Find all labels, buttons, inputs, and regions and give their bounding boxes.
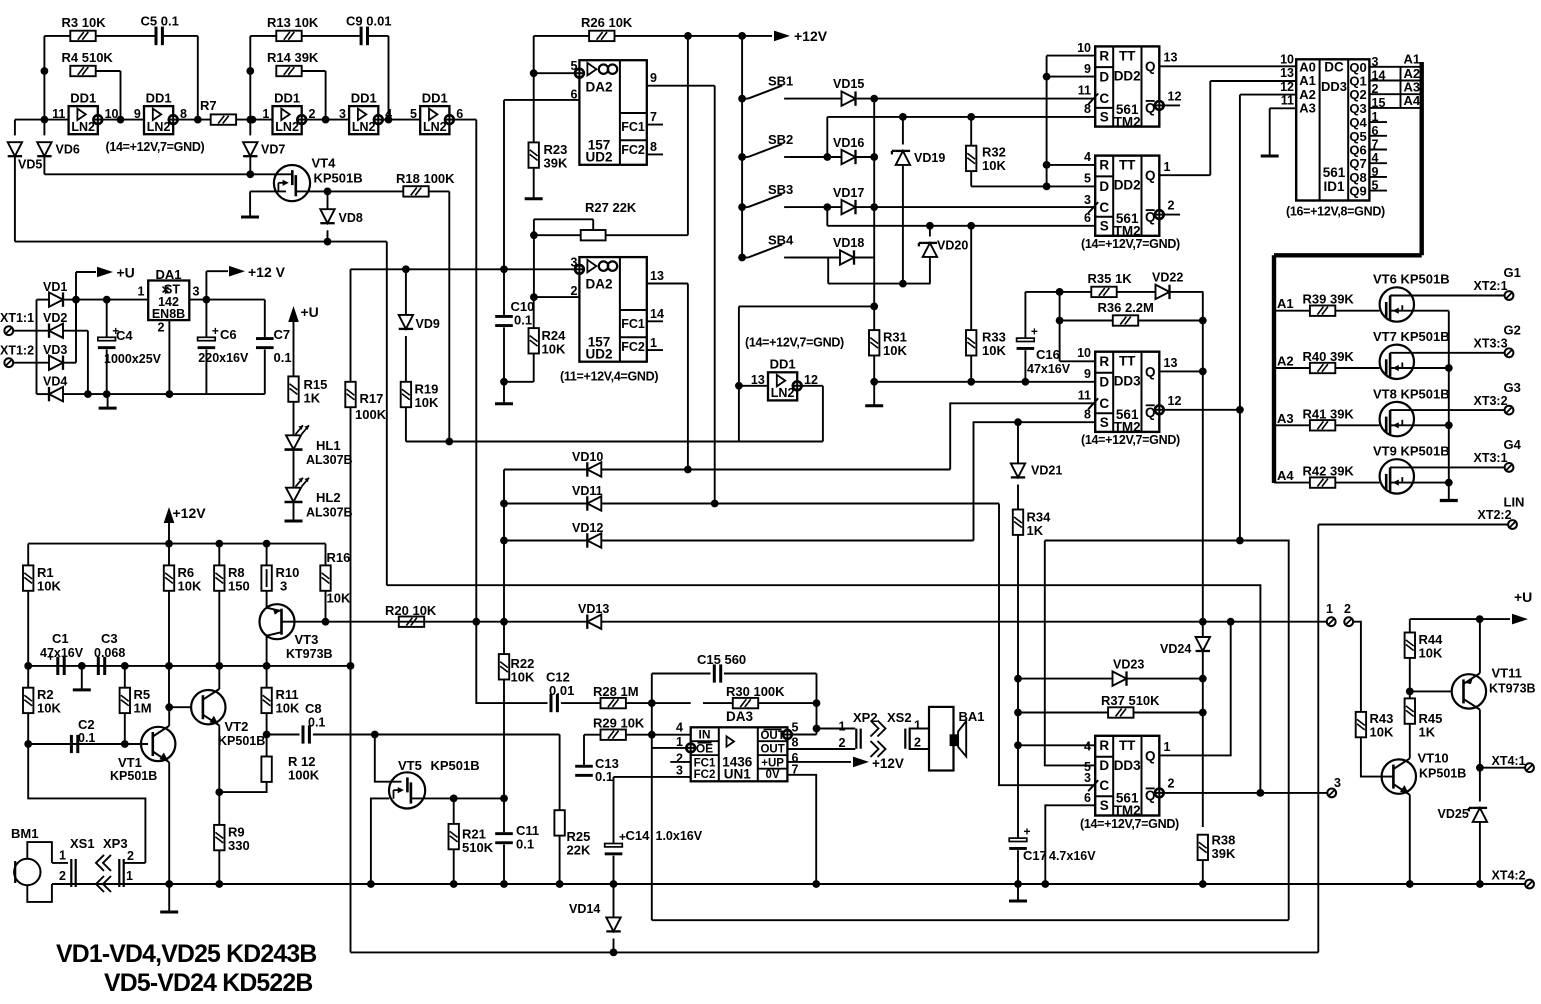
svg-text:A1: A1 <box>1277 296 1294 311</box>
svg-text:10K: 10K <box>37 579 61 594</box>
wire R30 out <box>758 702 816 704</box>
diode VD24 <box>1196 637 1210 651</box>
svg-text:3: 3 <box>280 579 287 594</box>
svg-text:(11=+12V,4=GND): (11=+12V,4=GND) <box>560 370 658 384</box>
wire R36 out <box>1138 320 1203 322</box>
wire VT5 source to ground <box>371 798 389 884</box>
transistor VT6 <box>1380 287 1414 321</box>
wire C15 out <box>724 673 817 675</box>
diode VD11 <box>587 496 601 510</box>
svg-text:C: C <box>1099 396 1109 411</box>
wire top rail to DA1 <box>76 299 148 301</box>
capacitor C6 <box>205 300 207 338</box>
svg-text:Q3: Q3 <box>1349 101 1366 116</box>
capacitor C9 <box>360 27 363 46</box>
svg-text:DD1: DD1 <box>70 90 96 105</box>
svg-text:TM2: TM2 <box>1114 114 1141 129</box>
wire DD2.2 R <box>1047 164 1096 166</box>
svg-text:R29 10K: R29 10K <box>593 716 645 731</box>
wire VT1 emitter <box>168 762 170 884</box>
svg-text:VT10: VT10 <box>1418 751 1449 766</box>
resistor R10 <box>266 544 268 566</box>
svg-text:A3: A3 <box>1299 101 1316 116</box>
wire VT2 emitter <box>218 725 220 792</box>
diode VD5 <box>14 120 16 136</box>
wire R13 left leg <box>250 35 276 37</box>
LED HL1 <box>286 435 301 449</box>
capacitor C17 <box>1009 838 1027 841</box>
svg-text:VD14: VD14 <box>569 902 600 916</box>
wire R19 bottom <box>405 407 407 441</box>
svg-text:VD5: VD5 <box>18 158 42 172</box>
svg-text:D: D <box>1099 758 1109 773</box>
wire to VT5 gate <box>375 735 402 782</box>
svg-text:R27 22K: R27 22K <box>585 200 637 215</box>
+U arrow right <box>1512 614 1528 625</box>
svg-text:VD5-VD24 KD522B: VD5-VD24 KD522B <box>104 970 313 997</box>
svg-text:10K: 10K <box>1419 646 1443 661</box>
svg-text:XT4:1: XT4:1 <box>1492 754 1526 768</box>
wire VT7 drain <box>1414 352 1505 354</box>
svg-text:3: 3 <box>676 764 683 778</box>
svg-text:TT: TT <box>1119 158 1136 173</box>
svg-text:5: 5 <box>792 721 799 735</box>
svg-text:1: 1 <box>1164 160 1171 174</box>
svg-text:LN2: LN2 <box>423 120 447 134</box>
svg-text:VT9 KP501B: VT9 KP501B <box>1373 444 1450 459</box>
resistor R29 <box>601 730 626 740</box>
wire C8 line <box>313 734 560 736</box>
+12V arrow SB <box>774 31 790 42</box>
svg-text:VT11: VT11 <box>1492 666 1522 681</box>
switch SB3 <box>738 203 746 211</box>
wire R17 bottom <box>350 407 352 952</box>
svg-text:IN: IN <box>699 728 711 742</box>
svg-text:0.1: 0.1 <box>514 313 532 328</box>
resistor R35 <box>1091 287 1116 297</box>
svg-text:R37 510K: R37 510K <box>1101 693 1160 708</box>
svg-text:C1: C1 <box>52 631 69 646</box>
svg-text:TT: TT <box>1119 48 1136 63</box>
svg-text:330: 330 <box>228 838 250 853</box>
svg-text:Q: Q <box>1145 405 1156 420</box>
resistor R34 <box>1013 510 1023 535</box>
svg-text:EN8B: EN8B <box>152 307 185 321</box>
wire VT8 drain <box>1414 409 1505 411</box>
transistor VT11 <box>1452 674 1486 708</box>
svg-text:39K: 39K <box>544 156 568 171</box>
wire XS1 row1 <box>52 862 68 864</box>
wire XS2 to BA1 <box>909 728 929 730</box>
diode VD8 <box>327 191 329 209</box>
flip-flop DD3 second <box>1095 736 1159 816</box>
svg-text:150: 150 <box>228 579 250 594</box>
diode VD6 <box>37 142 51 156</box>
svg-text:(14=+12V,7=GND): (14=+12V,7=GND) <box>745 336 844 350</box>
svg-text:VD18: VD18 <box>833 236 864 250</box>
svg-text:R18 100K: R18 100K <box>396 171 455 186</box>
svg-text:XS2: XS2 <box>887 710 912 725</box>
svg-text:47x16V: 47x16V <box>1027 362 1071 376</box>
wire DD3.2 Qb2 out <box>1164 792 1328 794</box>
resistor R19 <box>401 382 411 407</box>
svg-text:Q: Q <box>1145 210 1156 225</box>
wire DA2.1 pin5 <box>534 72 575 74</box>
resistor R2 <box>23 688 33 713</box>
svg-text:DD1: DD1 <box>146 90 172 105</box>
resistor R25 <box>554 810 564 835</box>
svg-text:C15 560: C15 560 <box>697 652 746 667</box>
wire DD3.2 R input <box>1018 744 1095 746</box>
wire R2 to XP3 <box>28 744 145 863</box>
svg-text:+UP: +UP <box>761 757 784 769</box>
+12V arrow DA3 <box>787 761 851 763</box>
svg-text:G4: G4 <box>1504 437 1522 452</box>
svg-text:R4 510K: R4 510K <box>62 50 114 65</box>
svg-text:3: 3 <box>1084 771 1091 785</box>
wire R28 out <box>626 702 691 704</box>
wire R3 left leg <box>44 35 70 37</box>
svg-text:13: 13 <box>1164 51 1178 65</box>
svg-text:12: 12 <box>1280 80 1294 94</box>
svg-text:2: 2 <box>571 284 578 298</box>
svg-text:0.1: 0.1 <box>308 716 325 730</box>
terminal 2 <box>1344 617 1353 626</box>
LED HL2 <box>286 488 301 502</box>
svg-text:S: S <box>1100 415 1109 430</box>
svg-text:G1: G1 <box>1504 265 1521 280</box>
svg-text:3: 3 <box>193 285 200 299</box>
wire OE branch <box>652 747 687 749</box>
svg-text:UD2: UD2 <box>585 150 612 165</box>
svg-text:10K: 10K <box>327 591 351 606</box>
svg-text:DA3: DA3 <box>726 709 753 724</box>
svg-text:UD2: UD2 <box>585 347 612 362</box>
transistor VT2 <box>191 690 225 724</box>
resistor R14 <box>276 66 301 76</box>
resistor R30 <box>733 698 758 708</box>
wire R17 top <box>350 269 352 382</box>
svg-text:S: S <box>1100 219 1109 234</box>
svg-text:3: 3 <box>1334 776 1341 790</box>
svg-text:Q: Q <box>1145 100 1156 115</box>
voltage regulator DA1 <box>148 281 189 321</box>
inverter DD1.1 <box>69 106 98 134</box>
stub DD2.2 Qb <box>1164 214 1180 216</box>
wire VT8 source <box>1414 424 1449 426</box>
svg-text:VD15: VD15 <box>833 77 864 91</box>
capacitor C1 <box>56 657 59 675</box>
svg-text:C7: C7 <box>274 327 291 342</box>
resistor R42 <box>1310 477 1335 487</box>
svg-text:DD1: DD1 <box>274 90 300 105</box>
chevrons XP2-XS2 <box>871 721 879 737</box>
switch SB1 <box>738 95 746 103</box>
svg-text:+: + <box>47 650 54 664</box>
wire DA1 pin3 <box>189 299 264 301</box>
wire +U line right <box>1410 618 1510 620</box>
wire R26 out to +12V <box>615 35 773 37</box>
capacitor C10 <box>503 269 505 315</box>
wire VD10 line <box>503 470 505 622</box>
svg-text:UN1: UN1 <box>724 767 751 782</box>
wire R32 bottom <box>970 171 972 186</box>
resistor R39 <box>1310 306 1335 316</box>
svg-text:A3: A3 <box>1277 411 1294 426</box>
svg-text:10K: 10K <box>178 579 202 594</box>
svg-text:+U: +U <box>301 304 319 320</box>
svg-text:1: 1 <box>650 336 657 350</box>
zener VD20 <box>929 226 931 237</box>
svg-text:4.7x16V: 4.7x16V <box>1049 849 1096 863</box>
svg-text:XT1:2: XT1:2 <box>0 344 34 358</box>
wire R22 chain <box>503 622 505 654</box>
wire VT11 collector <box>1479 710 1481 768</box>
resistor R11 <box>261 688 271 713</box>
wire R29 line <box>584 734 601 736</box>
wire DA2.1 pin6 <box>504 99 579 101</box>
svg-text:VD22: VD22 <box>1152 271 1183 285</box>
wire osc2 feedback long line <box>387 585 1261 793</box>
diode VD16 <box>790 156 842 158</box>
svg-text:DC: DC <box>1324 60 1344 75</box>
svg-text:VT2: VT2 <box>225 719 249 734</box>
wire VT11 emitter <box>1479 619 1481 673</box>
svg-text:VD24: VD24 <box>1160 642 1191 656</box>
svg-text:KP501B: KP501B <box>314 171 363 186</box>
resistor R23 <box>529 142 539 167</box>
svg-text:(14=+12V,7=GND): (14=+12V,7=GND) <box>1081 237 1180 251</box>
svg-text:+12V: +12V <box>173 505 207 521</box>
svg-text:561: 561 <box>1323 165 1346 180</box>
svg-text:R41 39K: R41 39K <box>1303 406 1355 421</box>
label A2 out cell <box>1400 67 1402 81</box>
wire R44-R45 <box>1409 658 1411 699</box>
svg-text:R: R <box>1099 738 1109 753</box>
svg-text:R17: R17 <box>360 391 384 406</box>
svg-text:XS1: XS1 <box>70 836 95 851</box>
wire VT6 source <box>1414 310 1449 312</box>
transistor VT4 <box>274 165 310 201</box>
wire R15-HL1 <box>293 402 295 436</box>
svg-text:1: 1 <box>914 719 921 733</box>
svg-text:R3 10K: R3 10K <box>62 15 107 30</box>
svg-text:4: 4 <box>1084 150 1091 164</box>
svg-text:D: D <box>1099 375 1109 390</box>
connector XP2 <box>855 729 857 749</box>
svg-text:+12V: +12V <box>794 28 828 44</box>
svg-text:VD20: VD20 <box>937 239 968 253</box>
capacitor C3 <box>97 657 100 675</box>
svg-text:1: 1 <box>1326 602 1333 616</box>
svg-text:XT3:2: XT3:2 <box>1474 394 1508 408</box>
wire decoder outputs Q0-Q3 <box>1369 66 1421 68</box>
wire R27 right leg <box>606 234 688 236</box>
svg-text:SB1: SB1 <box>768 74 793 89</box>
svg-text:XT2:2: XT2:2 <box>1478 508 1512 522</box>
wire +U riser <box>75 272 77 300</box>
capacitor C2 <box>70 735 73 753</box>
svg-text:510K: 510K <box>462 840 494 855</box>
wire C13 leg <box>583 735 585 765</box>
svg-text:Q: Q <box>1145 59 1156 74</box>
resistor R22 <box>499 654 509 679</box>
wire VD17 to S6 <box>826 207 828 226</box>
svg-text:VD21: VD21 <box>1031 464 1062 478</box>
HL2 termination bar <box>293 502 295 520</box>
wire XP2 row1 <box>817 728 856 730</box>
wire VD11 line <box>504 503 587 505</box>
svg-text:2: 2 <box>127 849 134 863</box>
svg-text:VD2: VD2 <box>43 311 67 325</box>
diode VD14 <box>613 884 615 918</box>
svg-text:R: R <box>1099 48 1109 63</box>
wire VT11 base <box>1410 690 1452 692</box>
svg-text:DD3: DD3 <box>1114 374 1141 389</box>
svg-text:2: 2 <box>839 736 846 750</box>
resistor R40 <box>1310 363 1335 373</box>
svg-text:R36 2.2M: R36 2.2M <box>1098 300 1154 315</box>
wire VD12 line <box>504 540 587 542</box>
svg-text:R7: R7 <box>200 98 217 113</box>
resistor R33 <box>966 330 976 355</box>
svg-text:DD1: DD1 <box>770 357 796 372</box>
diode VD18 <box>790 257 840 259</box>
svg-text:5: 5 <box>571 59 578 73</box>
wire bottom rail <box>351 951 1319 953</box>
wire +12V riser <box>205 271 207 299</box>
thick bus <box>1419 62 1423 255</box>
ground decoder A3 <box>1269 143 1271 156</box>
wire R14 right leg <box>302 70 326 72</box>
resistor R18 <box>403 186 428 196</box>
svg-text:2: 2 <box>1168 199 1175 213</box>
resistor R45 <box>1405 698 1415 723</box>
svg-text:9: 9 <box>650 71 657 85</box>
svg-text:G2: G2 <box>1504 323 1521 338</box>
terminal XT3:1 <box>1505 463 1514 472</box>
svg-text:VT7 KP501B: VT7 KP501B <box>1373 329 1450 344</box>
wire VT6 drain <box>1414 295 1505 297</box>
wire inv5 out <box>454 119 477 121</box>
diode VD12 <box>587 533 601 547</box>
svg-text:VD13: VD13 <box>578 602 609 616</box>
resistor R4 <box>70 66 95 76</box>
svg-text:1: 1 <box>1164 740 1171 754</box>
wire XT1 leads <box>13 330 49 332</box>
wire SB bus <box>741 36 743 258</box>
svg-text:VT1: VT1 <box>118 755 142 770</box>
svg-text:VD10: VD10 <box>572 450 603 464</box>
terminal XT3:2 <box>1505 406 1514 415</box>
wire R7 out <box>236 119 272 121</box>
svg-text:FC2: FC2 <box>621 143 645 157</box>
svg-text:VD1-VD4,VD25 KD243B: VD1-VD4,VD25 KD243B <box>56 941 316 968</box>
svg-text:4: 4 <box>1084 740 1091 754</box>
svg-text:VD9: VD9 <box>416 317 440 331</box>
svg-text:2: 2 <box>59 869 66 883</box>
svg-text:A4: A4 <box>1277 468 1294 483</box>
wire osc2 top <box>302 35 360 37</box>
svg-text:100K: 100K <box>288 768 320 783</box>
svg-text:39K: 39K <box>1212 846 1236 861</box>
svg-text:3: 3 <box>339 107 346 121</box>
chevrons XS1-XP3 <box>103 855 111 871</box>
wire VD11 to C3 pin <box>999 504 1095 786</box>
svg-text:SB4: SB4 <box>768 233 794 248</box>
decoder DD3 ID1 <box>1296 59 1369 200</box>
svg-text:VD17: VD17 <box>833 186 864 200</box>
resistor R1 <box>27 544 29 566</box>
wire Qb12 jog to OE line <box>1240 541 1289 920</box>
svg-text:10K: 10K <box>415 395 439 410</box>
diode VD1 <box>49 292 63 306</box>
label A4 out cell <box>1400 94 1402 108</box>
svg-text:R13 10K: R13 10K <box>267 15 319 30</box>
wire R43 to VT10 base <box>1361 737 1394 776</box>
svg-text:12: 12 <box>1168 90 1182 104</box>
resistor R38 <box>1198 835 1208 860</box>
svg-text:R: R <box>1099 158 1109 173</box>
wire DD3.1 S input <box>974 422 1096 540</box>
svg-text:R16: R16 <box>327 550 351 565</box>
svg-text:10K: 10K <box>37 701 61 716</box>
wire DD1.7 input <box>739 385 768 387</box>
bridge rails <box>36 300 38 395</box>
wire VT5 drain <box>411 797 504 799</box>
svg-text:8: 8 <box>792 736 799 750</box>
wire VT3 base <box>282 621 331 623</box>
svg-text:LN2: LN2 <box>275 120 299 134</box>
wire DD3.1 D line <box>874 381 1095 383</box>
svg-text:DD3: DD3 <box>1321 79 1347 94</box>
wire R26 left leg <box>533 36 535 142</box>
svg-text:C14: C14 <box>626 828 651 843</box>
wire C15 branch <box>651 674 653 921</box>
svg-text:VT5: VT5 <box>398 758 422 773</box>
wire VT2 base <box>169 706 191 708</box>
resistor R17 <box>345 382 355 407</box>
svg-text:Q9: Q9 <box>1349 184 1366 199</box>
resistor R31 <box>869 330 879 355</box>
inverter DD1.5 <box>420 106 449 134</box>
svg-text:VD7: VD7 <box>261 143 285 157</box>
resistor R7 <box>211 114 236 124</box>
resistor R44 <box>1405 633 1415 658</box>
resistor R9 <box>214 825 224 850</box>
svg-text:R28 1M: R28 1M <box>593 684 639 699</box>
wire decoder A2 input <box>1240 94 1296 96</box>
svg-text:R30 100K: R30 100K <box>726 684 785 699</box>
svg-text:FC1: FC1 <box>694 757 716 769</box>
svg-text:R: R <box>1099 354 1109 369</box>
svg-text:VD11: VD11 <box>572 484 603 498</box>
ground C1C3 <box>81 666 83 690</box>
resistor R41 <box>1310 420 1335 430</box>
svg-text:0.01: 0.01 <box>549 683 574 698</box>
wire osc1 top <box>96 35 155 37</box>
wire R18 out <box>429 190 450 192</box>
+12 V arrow <box>229 266 245 277</box>
svg-text:VD8: VD8 <box>339 211 363 225</box>
wire +12V rail <box>28 543 325 545</box>
svg-text:D: D <box>1099 69 1109 84</box>
svg-text:14: 14 <box>650 307 664 321</box>
resistor R37 <box>1108 707 1133 717</box>
wire DA2.2 pin2 <box>534 296 580 298</box>
svg-text:10: 10 <box>1077 41 1091 55</box>
connector XS2 <box>904 729 906 749</box>
